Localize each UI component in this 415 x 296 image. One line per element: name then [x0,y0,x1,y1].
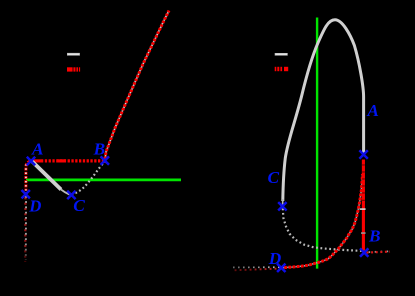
svg-text:A: A [31,140,44,159]
gray specks of trajectory overlapping exponential (right plot) [280,174,363,268]
gray dotted slow trajectory C to B (right plot) [283,209,362,251]
X marker at C (left plot) [67,191,75,199]
red dotted horizontal jump B to A (left plot) [41,159,104,162]
red solid fast jump line B to A (right plot) [362,160,365,251]
svg-text:D: D [268,249,282,268]
long red dash segment within B-to-A jump line (left plot) [57,159,66,162]
legend gray solid line sample (right) [275,53,288,56]
gray solid pulse trajectory A over peak to C (right plot) [283,20,364,201]
gray specks on red vertical below A (left plot) [25,165,27,191]
X marker at D (left plot) [22,190,30,198]
svg-text:A: A [366,101,379,120]
gray dotted row left of D (right plot) [233,266,281,268]
dark notches making upper jump look densely dotted (right plot) [362,165,365,201]
svg-text:D: D [28,197,41,216]
green vertical axis line (right plot) [316,18,318,269]
X marker at C (right plot) [278,202,286,210]
red dotted corner at A turning down (left plot) [26,161,31,191]
long red dash at start of B-to-A jump line (left plot) [32,159,41,162]
gray solid trajectory A to C (left plot) [32,162,61,190]
gray dotted slow trajectory C to B (left plot) [72,162,105,196]
legend gray solid line sample (left) [67,53,80,56]
X marker at B (left plot) [101,156,109,164]
dark red dotted row left of D (right plot) [233,269,279,271]
gray dotted trajectory overlapping steep branch (left plot) [105,11,169,164]
legend red dotted line sample (right) [275,67,289,71]
gray dotted fading tail below D (left plot) [25,194,27,260]
X marker at D (right plot) [277,264,285,272]
gray dotted continuation right of B (right plot) [367,250,390,253]
svg-text:B: B [368,227,381,246]
gray tick on red jump at y=209 (right plot) [360,208,366,210]
X marker at A (right plot) [359,150,367,158]
svg-text:B: B [93,140,106,159]
dark red dotted fading tail below D (left plot) [24,192,26,262]
X marker at A (left plot) [27,157,35,165]
red dotted exponential rising through D toward A (right plot) [280,174,363,268]
red dotted continuation right of B (right plot) [367,252,391,253]
X marker at B (right plot) [360,248,368,256]
svg-text:C: C [268,168,280,187]
legend red dotted line sample (left) [67,67,80,71]
gray tick on red jump at y=233 (right plot) [361,232,366,234]
svg-text:C: C [73,196,85,215]
green x-axis line (left plot) [26,179,181,182]
red dotted nullcline: steep right branch through B (left plot) [105,11,169,164]
